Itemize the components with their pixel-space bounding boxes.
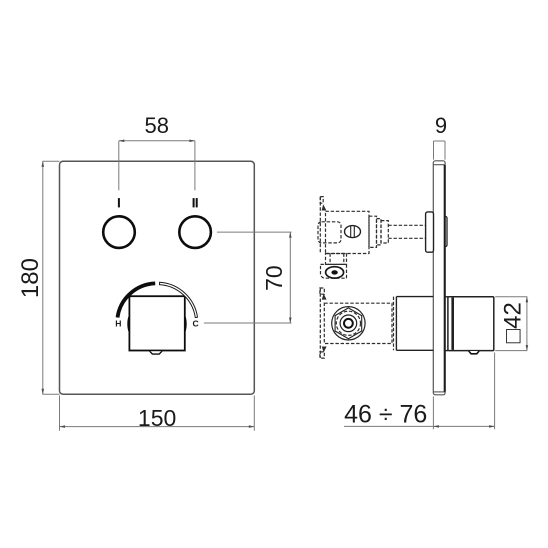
dim 180 line	[42, 161, 44, 394]
bottom body rect	[324, 303, 392, 343]
dim 180 ext bottom	[42, 393, 59, 395]
svg-text:70: 70	[261, 265, 287, 291]
dim 180 arrows	[42, 161, 45, 394]
top valve screw ellipse	[345, 226, 361, 238]
cold arc thin band	[160, 282, 198, 317]
sleeve top	[396, 296, 433, 298]
knob I circle	[103, 216, 135, 248]
top valve steps	[369, 216, 377, 247]
wall plate bottom cap line	[433, 391, 445, 393]
clamp foot	[321, 264, 347, 278]
dim 150 ext right	[253, 396, 255, 431]
label II	[193, 198, 195, 207]
dim sq42 line	[526, 297, 528, 351]
dim 150 arrows	[60, 425, 255, 428]
clamp screw center	[331, 270, 337, 274]
dim 9 ext lines	[433, 141, 435, 160]
top bracket tab rect	[320, 197, 323, 204]
dim 70 ext top from knob II center	[217, 231, 292, 233]
bottom bracket tab top	[320, 288, 324, 294]
knob II circle	[179, 216, 211, 248]
svg-text:58: 58	[144, 113, 168, 138]
sleeve hidden left edge	[393, 297, 395, 351]
dim 58 arrows	[119, 140, 195, 143]
centerline knob I	[118, 141, 120, 191]
handle box	[448, 297, 494, 351]
dim 46-76 ext right	[494, 353, 496, 430]
svg-text:9: 9	[435, 113, 447, 138]
wall plate side	[433, 161, 445, 395]
dim sq42 arrows	[526, 297, 529, 351]
dim 150 line	[60, 426, 255, 428]
dim 46-76 line	[344, 425, 495, 427]
dim 70 line	[289, 232, 291, 323]
bottom bracket screw tip bottom	[322, 347, 327, 353]
top bracket vertical	[319, 197, 321, 254]
top valve screw slot	[350, 226, 352, 237]
dim sq42 ext lines	[495, 296, 527, 298]
dim 58 line	[119, 140, 195, 142]
svg-text:180: 180	[17, 258, 44, 298]
svg-text:46 ÷ 76: 46 ÷ 76	[344, 401, 427, 429]
svg-text:H: H	[115, 318, 121, 328]
top trim bump in front of plate	[445, 217, 447, 247]
handle connector lines	[445, 296, 448, 298]
wall plate top cap line	[433, 164, 445, 166]
top valve flange at wall	[426, 212, 434, 252]
lower bracket of top valve	[326, 254, 347, 265]
sleeve left solid edge	[395, 297, 397, 351]
top bracket screw tip	[322, 204, 327, 210]
bottom bracket screw tip top	[322, 294, 327, 300]
bottom bracket tab bottom	[320, 352, 324, 358]
sleeve bottom	[396, 349, 433, 351]
cartridge outer circle	[332, 307, 365, 340]
temperature knob left bulge	[127, 317, 130, 331]
dim 150 ext left	[59, 396, 61, 431]
dim 70 ext bottom from C level	[204, 322, 292, 324]
cartridge center	[344, 319, 353, 328]
top valve body rect	[326, 211, 370, 253]
top valve left cap	[318, 222, 341, 243]
dim 9 line	[434, 140, 446, 142]
wall plate front face thick edge	[444, 165, 446, 392]
handle accent thick line	[451, 298, 454, 350]
cartridge ring	[340, 315, 357, 332]
cartridge dashed circle	[336, 311, 360, 335]
handle button bump	[469, 351, 479, 354]
hot arc bold	[118, 283, 156, 317]
knob square	[129, 296, 184, 350]
svg-text:□42: □42	[500, 302, 527, 343]
label I	[118, 198, 120, 207]
svg-text:C: C	[192, 318, 198, 328]
bottom tab notch	[150, 351, 162, 354]
dim 180 ext top	[42, 160, 59, 162]
centerline knob II	[194, 141, 196, 191]
clamp screw ellipse	[326, 267, 344, 278]
bottom bracket vertical	[319, 288, 321, 358]
dim 70 arrows	[289, 232, 292, 323]
dim 46-76 arrows	[433, 425, 494, 428]
dim 46-76 ext left	[432, 397, 434, 430]
svg-text:150: 150	[138, 405, 176, 431]
front plate	[60, 161, 255, 394]
temperature knob right bulge	[184, 317, 187, 331]
cartridge hex nut	[335, 308, 362, 339]
top valve shaft	[388, 224, 425, 226]
